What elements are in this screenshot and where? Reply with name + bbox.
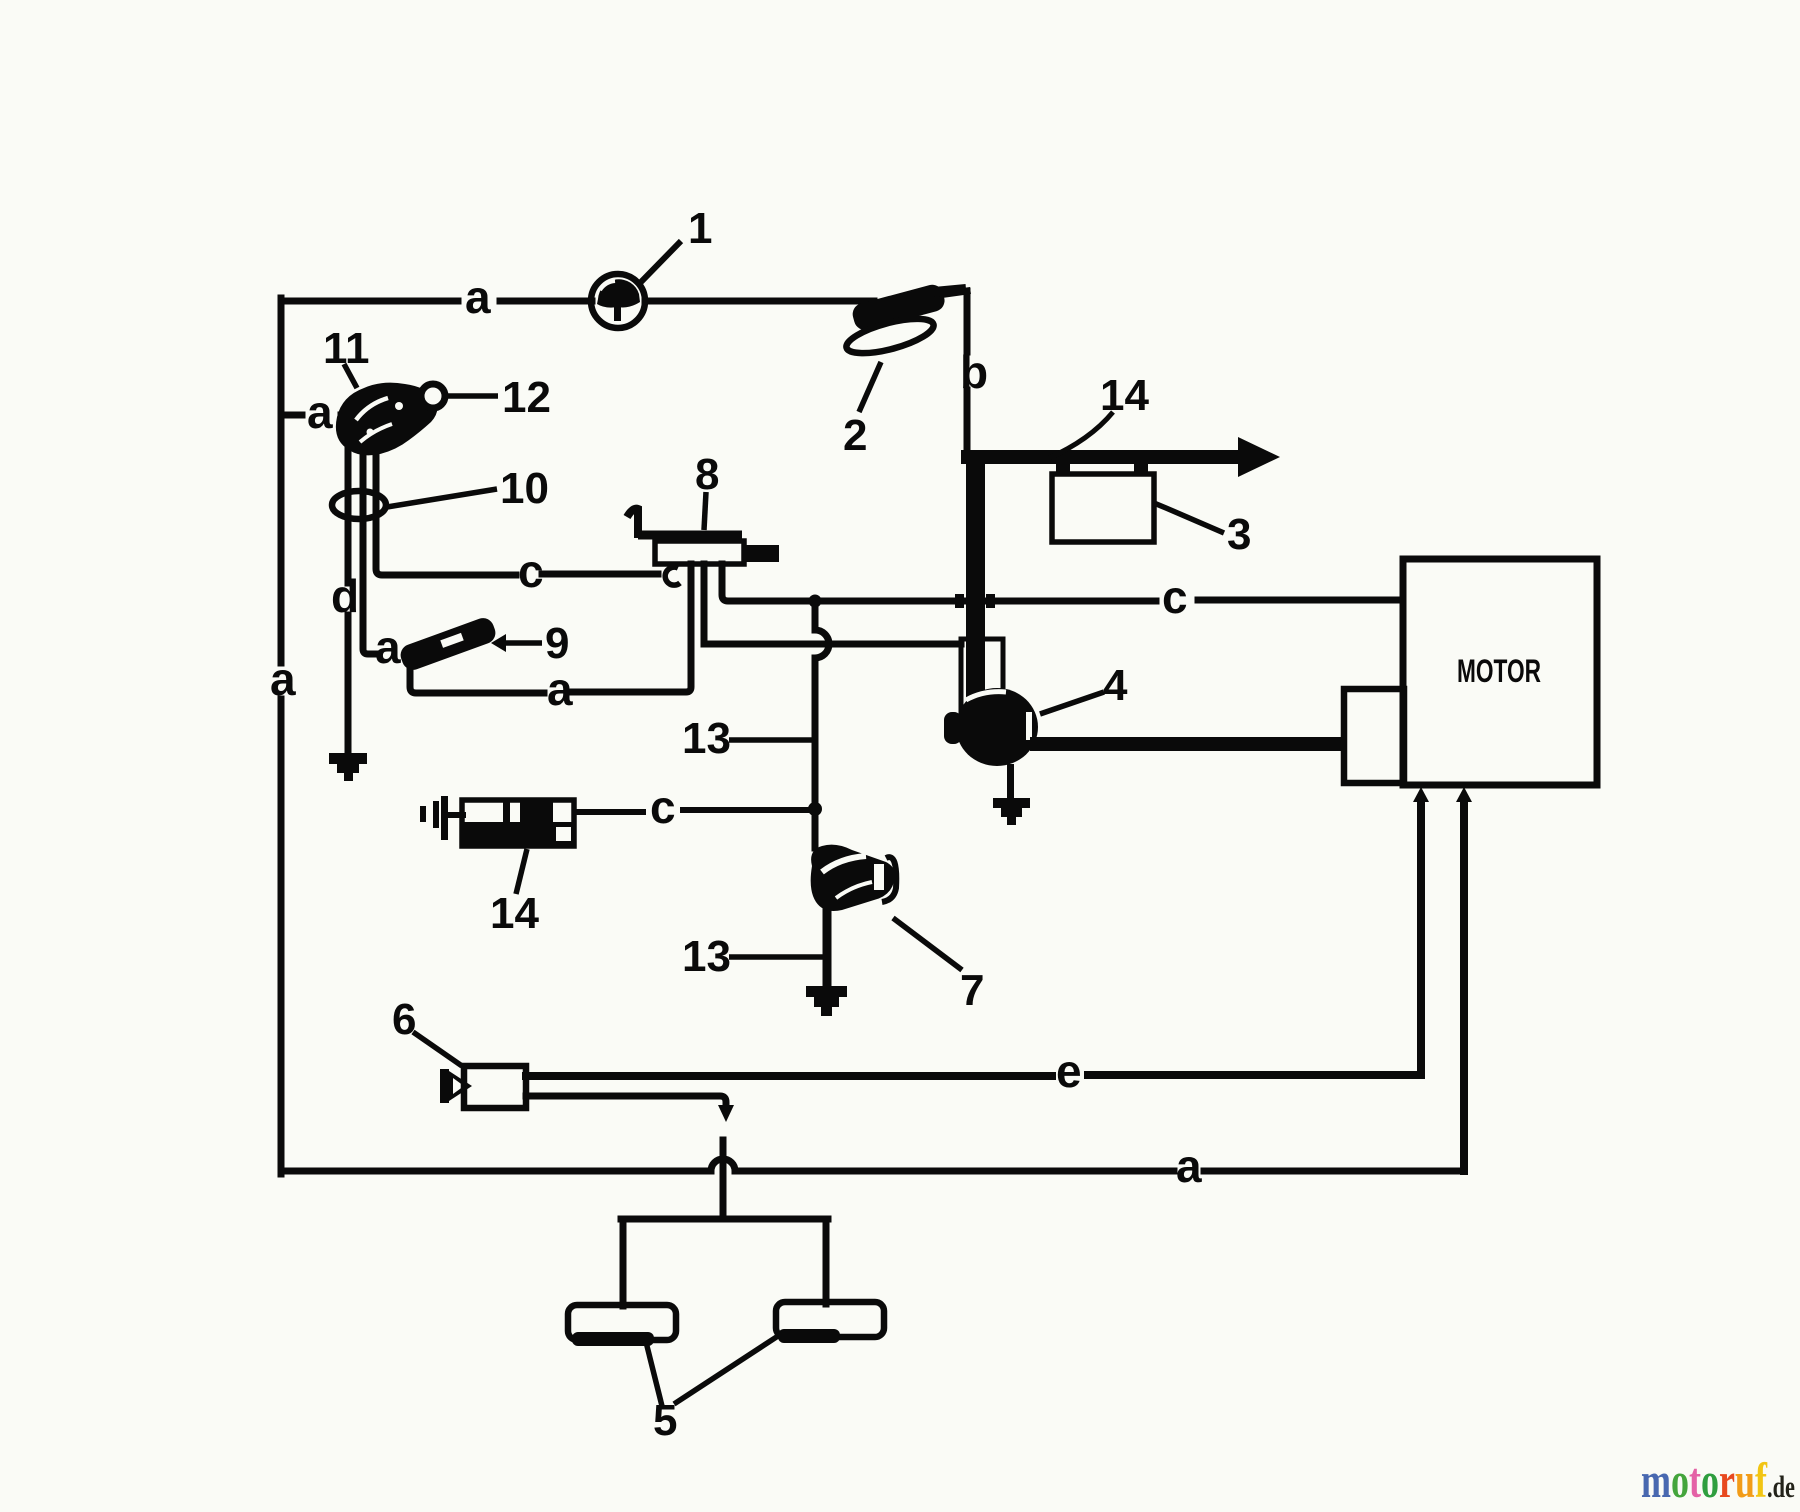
pointer 13 upper xyxy=(729,737,812,743)
wire c: fuse 14 to junction on wire 13 xyxy=(574,810,812,812)
thick bus bar down to solenoid 4 xyxy=(966,451,985,698)
bumps where wire c crosses bus bar xyxy=(955,594,964,608)
pointer from label 6 to plug xyxy=(413,1032,462,1066)
thick supply wire with arrow (node 14 feed) xyxy=(961,437,1280,477)
svg-text:7: 7 xyxy=(960,966,984,1015)
svg-text:MOTOR: MOTOR xyxy=(1457,653,1541,689)
wire: ignition cluster stub from left border xyxy=(281,412,352,419)
wire c: cluster down then right to connector 8 xyxy=(376,455,658,575)
svg-text:3: 3 xyxy=(1227,510,1251,559)
svg-text:a: a xyxy=(307,386,333,438)
svg-text:1: 1 xyxy=(688,204,712,253)
pointer to grommet 10 xyxy=(387,489,497,507)
svg-text:a: a xyxy=(1176,1140,1202,1192)
svg-text:2: 2 xyxy=(843,411,867,460)
svg-text:11: 11 xyxy=(323,324,370,373)
battery left lead xyxy=(620,1219,627,1306)
svg-text:e: e xyxy=(1056,1045,1082,1097)
connector block 8 xyxy=(627,509,779,564)
pointer to clip 14 (top) xyxy=(1047,412,1113,459)
svg-text:c: c xyxy=(518,545,544,597)
svg-text:9: 9 xyxy=(545,619,569,668)
pointer to fuse 14 xyxy=(516,849,527,894)
pointer 13 lower xyxy=(729,954,824,960)
arrow pointer to switch 9 xyxy=(491,634,542,652)
connector hook pin xyxy=(665,567,680,585)
svg-text:14: 14 xyxy=(490,889,539,938)
junction node on wire 13 xyxy=(808,802,822,816)
pointer to cluster 11 xyxy=(344,364,357,388)
MOTOR terminal sub-box xyxy=(1344,689,1404,783)
ground below relay 7 xyxy=(806,986,847,1016)
svg-text:c: c xyxy=(650,781,676,833)
pointer to switch 2 xyxy=(859,362,881,412)
wire: cluster down then right to switch 9 xyxy=(363,450,375,654)
switch 2 (slanted lever) xyxy=(843,282,966,360)
battery 5 left terminal xyxy=(568,1305,676,1346)
motoruf.de logo xyxy=(1641,1455,1795,1512)
solenoid 4 (dark round body) xyxy=(944,688,1038,766)
wire a: bottom horizontal with hop over battery lead xyxy=(281,1159,1464,1171)
connector arrows under MOTOR xyxy=(1413,787,1429,802)
svg-text:12: 12 xyxy=(502,373,551,422)
wire: connector pin 4 down then right to node xyxy=(722,564,812,601)
wire a: left border vertical xyxy=(278,298,285,1174)
wire a: from switch 9 down and right to connector pin xyxy=(410,564,691,693)
svg-text:8: 8 xyxy=(695,450,719,499)
fuse 14 (left, cartridge with clip) xyxy=(420,796,574,846)
wire e: from plug 6 to right vertical under MOTOR xyxy=(526,802,1421,1076)
plug 6 (connector with jack) xyxy=(440,1066,526,1108)
pointer to box 3 xyxy=(1154,503,1224,533)
pointer from label 8 to connector xyxy=(704,492,706,530)
wire 13: vertical from node down to switch 7, hop over wire xyxy=(815,601,829,848)
battery top bar xyxy=(621,1216,828,1223)
wire: battery positive lead xyxy=(720,1140,727,1219)
wire d: cluster down to ground with label gap xyxy=(345,446,352,755)
wire c: node to MOTOR xyxy=(815,600,1402,601)
svg-text:d: d xyxy=(331,570,359,622)
wire a: top horizontal from indicator 1 to switch 2 xyxy=(645,298,874,305)
svg-text:a: a xyxy=(547,663,573,715)
pointers to battery 5 xyxy=(646,1342,662,1406)
pointer to solenoid 4 xyxy=(1040,692,1104,714)
key ring 12 on cluster xyxy=(421,384,445,408)
svg-text:6: 6 xyxy=(392,995,416,1044)
svg-text:a: a xyxy=(375,621,401,673)
relay 7 stem to ground xyxy=(823,906,832,990)
svg-text:14: 14 xyxy=(1100,371,1149,420)
pointer to relay 7 xyxy=(893,918,962,970)
relay box 3 xyxy=(1052,474,1154,542)
svg-text:a: a xyxy=(465,271,491,323)
svg-text:10: 10 xyxy=(500,464,549,513)
ground below cluster (wire d) xyxy=(329,753,367,781)
wire a: top horizontal from left border to indicator 1 xyxy=(281,298,592,305)
battery 5 right terminal xyxy=(776,1302,884,1343)
svg-text:13: 13 xyxy=(682,714,731,763)
wire: plug 6 lower lead to arrow xyxy=(526,1096,726,1106)
wire b: right vertical from corner down to thick feed xyxy=(964,291,971,458)
ignition relay 7 (dark switch body) xyxy=(811,845,897,911)
svg-text:5: 5 xyxy=(653,1396,677,1445)
grommet 10 (oval around leads) xyxy=(332,491,386,519)
junction node at connector pin 4 feed xyxy=(809,595,822,608)
wire: connector pin 3 down then right to solenoid housing xyxy=(704,564,961,644)
svg-text:a: a xyxy=(270,653,296,705)
pointer to ring 12 xyxy=(447,393,498,399)
ground below solenoid 4 xyxy=(993,764,1030,825)
MOTOR box xyxy=(1403,559,1597,785)
svg-text:c: c xyxy=(1162,571,1188,623)
arrow on plug 6 lead xyxy=(718,1105,734,1122)
svg-text:b: b xyxy=(960,346,988,398)
ignition switch 11 (dark cluster) xyxy=(336,383,438,456)
wire: switch 2 to top-right corner xyxy=(938,291,967,295)
switch 9 (slanted lever) xyxy=(398,615,499,673)
indicator lamp 1 (circle with filled half) xyxy=(591,241,681,328)
svg-text:4: 4 xyxy=(1103,661,1128,710)
wire: bottom-right vertical up to MOTOR xyxy=(1460,802,1468,1171)
solenoid housing rectangle xyxy=(961,639,1003,731)
svg-text:13: 13 xyxy=(682,932,731,981)
battery right lead xyxy=(823,1219,830,1304)
thick cable solenoid to MOTOR xyxy=(1030,737,1346,751)
